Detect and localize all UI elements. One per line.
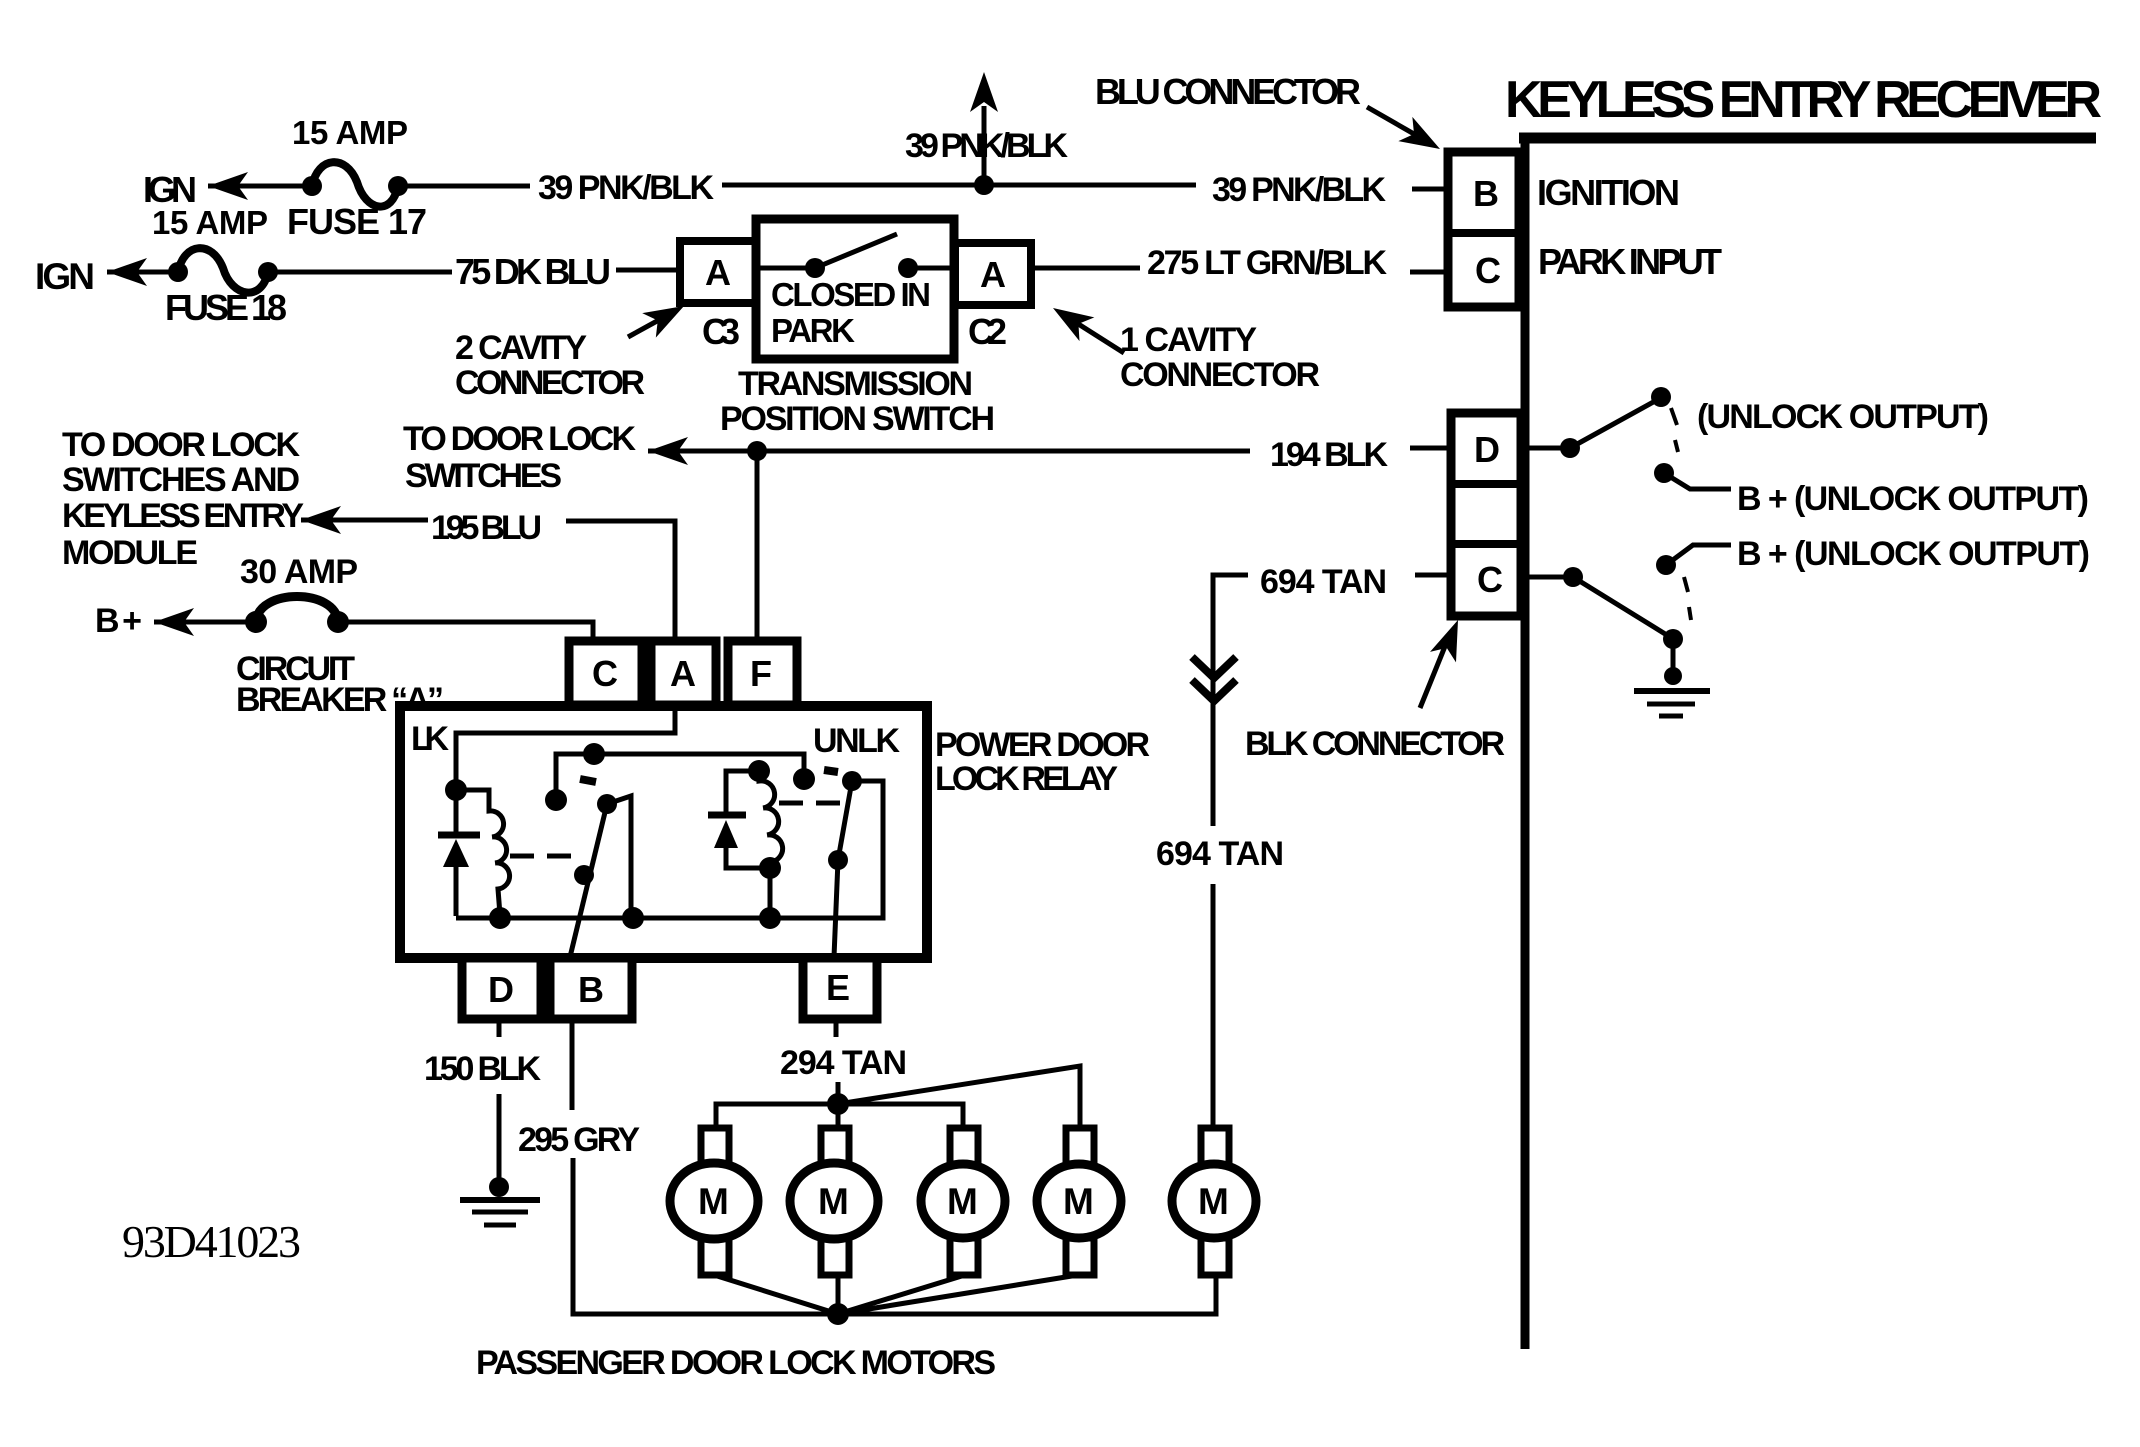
svg-text:KEYLESS ENTRY RECEIVER: KEYLESS ENTRY RECEIVER [1505,71,2102,129]
node rail LK coil [489,907,511,929]
wire switch 1 contact to B+ label [1664,473,1731,489]
node F-pin tap on 194 BLK [747,441,767,461]
node LK blade upper contact [597,794,617,814]
svg-text:POSITION SWITCH: POSITION SWITCH [720,400,995,438]
diode CR1 (LK) [438,790,480,916]
connector BLK pins D blank C (receiver) [1451,413,1521,616]
wire TPS right contact to C2 [908,266,955,271]
wire 39 PNK/BLK mid segment [722,183,1196,188]
node switch 1 B+ contact [1654,463,1674,483]
node switch 2 blade tip [1663,629,1683,649]
fuse F18 [168,248,278,292]
wire return from motor 2 [836,1274,841,1314]
node LK fixed contact [545,789,567,811]
svg-text:B: B [1473,173,1499,214]
svg-text:C2: C2 [968,311,1007,352]
wire 39 PNK/BLK stub into pin B [1412,187,1450,192]
svg-text:MODULE: MODULE [62,534,198,572]
wire 39 PNK/BLK left segment to IGN [208,184,312,189]
node motor return junction [827,1303,849,1325]
svg-text:1 CAVITY: 1 CAVITY [1120,321,1257,359]
wire pin C to unlock switch 2 [1521,575,1568,580]
svg-text:150 BLK: 150 BLK [424,1050,541,1088]
node motor feed junction [827,1093,849,1115]
svg-text:39 PNK/BLK: 39 PNK/BLK [1212,171,1386,209]
splice chevrons on 694 TAN [1192,657,1236,701]
motor M4 [1037,1128,1121,1275]
wire 75 DK BLU into C3 connector [616,268,682,273]
wire pin D to unlock switch [1521,446,1565,451]
svg-text:B + (UNLOCK OUTPUT): B + (UNLOCK OUTPUT) [1737,535,2090,573]
svg-text:F: F [750,653,772,694]
wire 194 BLK main run [648,449,1250,454]
node rail LK contact riser [622,907,644,929]
svg-text:E: E [826,967,850,1008]
svg-text:TO DOOR LOCK: TO DOOR LOCK [62,426,300,464]
wire 39 PNK/BLK up branch [982,106,987,185]
node above ground [1664,667,1682,685]
circuit breaker A [245,597,349,634]
LK mechanical link (dashed) [510,854,584,859]
node LK blade link [574,865,594,885]
svg-text:B: B [578,969,604,1010]
svg-text:294 TAN: 294 TAN [780,1044,907,1082]
wire 194 BLK stub into pin D [1410,446,1453,451]
svg-text:194 BLK: 194 BLK [1270,436,1388,474]
wire 294 TAN to motor feed node [836,1082,841,1102]
svg-text:39 PNK/BLK: 39 PNK/BLK [538,169,714,207]
wire return from motor 1 [714,1275,838,1314]
fuse F17 [302,162,408,206]
wire N1 to UNLK fixed contact [594,754,804,777]
wire N1 to LK fixed contact [556,754,594,798]
wire 194 BLK branch to relay pin F [755,451,760,768]
UNLK mechanical link (dashed) [779,801,846,806]
svg-text:2 CAVITY: 2 CAVITY [455,329,587,367]
svg-text:SWITCHES: SWITCHES [405,457,562,495]
arrow BLU CONNECTOR pointer [1367,107,1447,161]
wire B+ to circuit breaker [154,620,256,625]
wire feed to motor 1 [716,1104,838,1130]
relay pin F box [728,641,797,705]
UNLK contact gap dash [824,770,838,772]
node 39 PNK/BLK junction [974,175,994,195]
wire LK contact riser to rail [607,796,631,918]
svg-text:LK: LK [411,720,449,758]
svg-text:195 BLU: 195 BLU [431,509,542,547]
svg-text:IGNITION: IGNITION [1537,172,1680,213]
svg-text:D: D [488,969,514,1010]
diode CR2 (UNLK) [708,771,768,868]
relay pin C box [569,641,642,705]
wire UNLK coil bottom to rail [768,868,773,918]
svg-text:39 PNK/BLK: 39 PNK/BLK [905,127,1068,165]
svg-text:M: M [1063,1181,1094,1222]
node unlock switch 2 common [1563,567,1583,587]
wire 75 DK BLU from fuse 18 [268,270,452,275]
LK relay blade to pin B [570,804,607,957]
wire 150 BLK to ground [497,1094,502,1185]
node unlock switch 1 common [1560,438,1580,458]
arrow BLK CONNECTOR pointer [1420,615,1471,708]
relay pin A box [651,641,716,705]
svg-text:B + (UNLOCK OUTPUT): B + (UNLOCK OUTPUT) [1737,480,2089,518]
svg-text:UNLK: UNLK [813,722,900,760]
svg-text:C: C [1477,559,1503,600]
svg-text:75 DK BLU: 75 DK BLU [455,251,611,292]
relay common rail [456,781,883,918]
UNLK coil winding [759,771,783,866]
wire return from motor 3 [838,1275,965,1314]
wire 275 LT GRN/BLK from C2 [1031,266,1140,271]
TPS switch left contact [805,258,825,278]
arrow to 2 cavity connector [628,294,691,338]
svg-text:A: A [670,653,696,694]
svg-text:POWER DOOR: POWER DOOR [935,726,1150,764]
node switch 2 B+ contact [1656,555,1676,575]
wire feed to motor 2 [836,1104,841,1130]
relay pin D box [462,958,541,1019]
relay pin B box [550,958,632,1019]
svg-text:93D41023: 93D41023 [122,1216,301,1267]
svg-text:CONNECTOR: CONNECTOR [455,364,645,402]
wire 275 LT GRN/BLK stub into pin C [1410,270,1450,275]
svg-text:IGN: IGN [35,256,95,297]
ground G (150 BLK) [460,1200,540,1225]
switch 2 blade to ground [1573,577,1670,637]
motor M2 [790,1128,878,1275]
node LK coil top [445,779,467,801]
arrow IGN (fuse 17 feed) [208,172,248,200]
svg-text:694 TAN: 694 TAN [1156,835,1284,873]
svg-text:15 AMP: 15 AMP [152,204,268,241]
LK contact gap dash [580,779,596,782]
connector BLU pins B and C (receiver) [1448,152,1519,307]
TPS switch blade (closed in park) [815,234,897,268]
svg-text:SWITCHES AND: SWITCHES AND [62,461,300,499]
node UNLK blade link [828,850,848,870]
arrow IGN (fuse 18 feed) [107,258,147,286]
wire 694 TAN left bracket [1213,575,1248,826]
UNLK relay blade to pin E [834,781,852,957]
svg-text:M: M [1198,1181,1229,1222]
svg-text:275 LT GRN/BLK: 275 LT GRN/BLK [1147,244,1387,282]
wire 694 TAN lower run to motor 5 [1211,884,1216,1130]
wire return from motor 5 [838,1273,1216,1314]
connector C3 cavity A [680,241,757,303]
svg-text:TRANSMISSION: TRANSMISSION [738,365,973,403]
node UNLK coil top (pin F) [748,760,770,782]
svg-text:C: C [592,653,618,694]
arrow TO DOOR LOCK SWITCHES AND KEYLESS ENTRY MODULE [301,506,341,534]
svg-text:BLU CONNECTOR: BLU CONNECTOR [1095,71,1361,112]
motor M3 [921,1128,1005,1275]
wire switch 2 contact to B+ label [1666,545,1731,565]
node UNLK blade upper contact [842,771,862,791]
LK coil winding [456,790,510,915]
wire 75 DK BLU left segment to IGN [107,270,178,275]
svg-text:TO DOOR LOCK: TO DOOR LOCK [403,420,636,458]
arrow to 1 cavity connector [1046,296,1124,353]
wire feed to motor 4 [838,1066,1080,1130]
relay pin E box [803,958,877,1019]
svg-text:PARK INPUT: PARK INPUT [1538,241,1722,282]
node ground splice [489,1177,509,1197]
keyless entry receiver side boundary (thick) [1521,133,1530,1349]
node switch 1 blade tip [1651,387,1671,407]
svg-text:B +: B + [95,602,142,640]
arrow B+ feed [154,608,194,636]
wire return from motor 4 [838,1275,1078,1314]
arrow TO DOOR LOCK SWITCHES [648,437,688,465]
power door lock relay case [400,706,927,958]
ground (receiver output) [1634,691,1710,716]
wire pin A to LK coil (inside relay) [456,706,675,788]
wire 150 BLK from pin D [497,1019,502,1037]
svg-text:C3: C3 [702,311,740,352]
switch 1 blade (unlock output) [1570,400,1657,448]
svg-text:C: C [1475,250,1501,291]
switch 2 travel arc dashes [1684,577,1691,620]
svg-text:694 TAN: 694 TAN [1260,563,1387,601]
svg-text:M: M [698,1181,729,1222]
wire feed to motor 3 [838,1104,963,1130]
wire 195 BLU to relay pin A [566,521,675,733]
node UNLK coil bottom [759,857,781,879]
svg-text:D: D [1474,429,1500,470]
svg-text:295 GRY: 295 GRY [518,1121,640,1159]
wire blade tip to ground [1671,639,1676,674]
wire into TPS left contact [757,266,815,271]
wire 295 GRY to motor return rail [573,1158,836,1314]
node rail UNLK coil [759,907,781,929]
svg-text:LOCK RELAY: LOCK RELAY [935,760,1118,798]
transmission position switch box [756,219,954,359]
svg-text:FUSE 18: FUSE 18 [165,287,287,328]
wire 39 PNK/BLK from fuse 17 [398,184,530,189]
svg-text:A: A [980,254,1006,295]
wire circuit breaker to relay pin C [338,622,593,752]
svg-text:PASSENGER DOOR LOCK MOTORS: PASSENGER DOOR LOCK MOTORS [476,1344,996,1382]
connector C2 cavity A [955,243,1031,305]
svg-text:KEYLESS ENTRY: KEYLESS ENTRY [62,497,304,535]
svg-text:A: A [705,252,731,293]
TPS switch right contact [898,258,918,278]
switch 1 travel arc dashes [1671,408,1678,452]
arrow up 39 PNK/BLK [970,72,998,112]
svg-text:CONNECTOR: CONNECTOR [1120,356,1320,394]
motor M5 [1172,1128,1256,1275]
motor M1 [670,1128,758,1275]
svg-text:15 AMP: 15 AMP [292,114,408,151]
wire 694 TAN stub into pin C (blk) [1415,573,1453,578]
svg-text:FUSE 17: FUSE 17 [287,201,427,242]
svg-text:30 AMP: 30 AMP [240,553,358,591]
node UNLK fixed contact [793,768,815,790]
svg-text:CLOSED IN: CLOSED IN [771,276,931,313]
svg-text:M: M [947,1181,978,1222]
wire 295 GRY from pin B [570,1019,575,1110]
wire 195 BLU left segment [301,518,428,523]
svg-text:BLK CONNECTOR: BLK CONNECTOR [1245,725,1505,763]
keyless entry receiver top boundary (thick) [1519,133,2096,144]
svg-text:BREAKER “A”: BREAKER “A” [236,681,444,719]
node N1 C-pin junction [583,743,605,765]
wire 294 TAN from pin E [834,1019,839,1037]
svg-text:(UNLOCK OUTPUT): (UNLOCK OUTPUT) [1697,398,1989,436]
svg-text:M: M [818,1181,849,1222]
svg-text:PARK: PARK [771,312,855,349]
